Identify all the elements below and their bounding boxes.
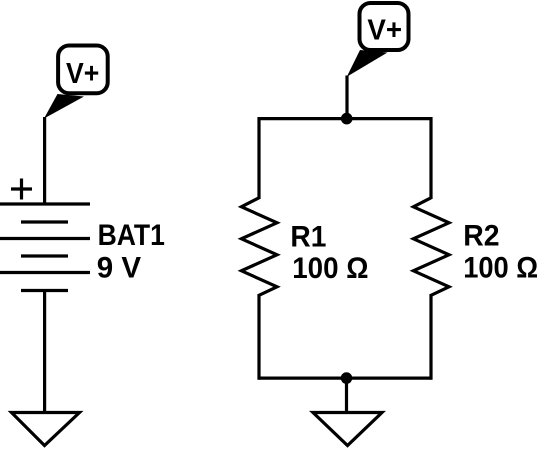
wire R1 to bottom rail bbox=[257, 294, 260, 380]
battery BAT1 bbox=[0, 204, 90, 291]
resistor R2 bbox=[413, 198, 449, 295]
resistor R1 bbox=[241, 198, 277, 295]
svg-text:100 Ω: 100 Ω bbox=[292, 252, 368, 285]
wire V+ to battery positive bbox=[43, 117, 46, 206]
junction bottom node bbox=[341, 372, 353, 384]
junction top node bbox=[341, 113, 353, 125]
svg-text:BAT1: BAT1 bbox=[98, 219, 165, 252]
plus polarity mark bbox=[11, 179, 32, 200]
ground (right) bbox=[313, 413, 382, 446]
svg-text:100 Ω: 100 Ω bbox=[463, 252, 538, 285]
net label V+ (left, node V+) bbox=[44, 46, 108, 119]
wire V+ to top rail bbox=[345, 76, 348, 121]
wire bottom rail bbox=[258, 377, 433, 380]
wire rail to R1 bbox=[257, 117, 260, 199]
svg-text:R1: R1 bbox=[290, 220, 326, 253]
net label V+ (right, node V+) bbox=[347, 3, 409, 77]
ground (left) bbox=[12, 413, 80, 446]
wire top rail bbox=[258, 117, 433, 120]
svg-text:V+: V+ bbox=[66, 57, 99, 89]
wire R2 to bottom rail bbox=[429, 294, 432, 380]
wire rail to ground bbox=[345, 378, 348, 414]
wire rail to R2 bbox=[429, 117, 432, 199]
wire battery negative to ground bbox=[43, 289, 46, 414]
svg-text:9 V: 9 V bbox=[97, 252, 142, 285]
svg-text:R2: R2 bbox=[463, 220, 499, 253]
svg-text:V+: V+ bbox=[367, 13, 402, 45]
